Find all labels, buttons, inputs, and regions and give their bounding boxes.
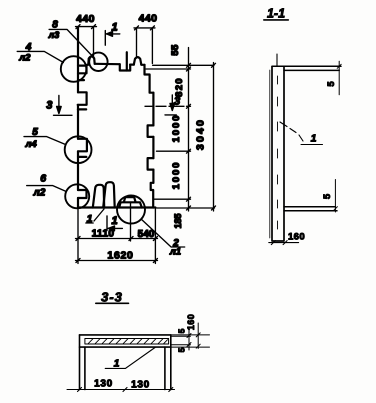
svg-text:5: 5 — [322, 193, 333, 199]
extension dash-dot at section 3-3 level — [145, 105, 191, 107]
dimension 440 left — [76, 13, 97, 57]
right edge bottom jog — [151, 183, 154, 208]
callout labels and leaders — [17, 20, 185, 258]
section marker 1 top — [105, 22, 120, 46]
top edge recess — [120, 64, 130, 70]
extension lines right — [146, 65, 215, 208]
keyway notch left #2 — [78, 139, 87, 157]
dimension line 1110/540 — [76, 238, 158, 240]
svg-text:3040: 3040 — [195, 118, 207, 150]
svg-text:л2: л2 — [18, 52, 31, 63]
svg-text:820: 820 — [174, 77, 185, 97]
keyway notch right #1 — [148, 125, 154, 136]
inner thin plate — [85, 339, 169, 345]
callout circle 8 — [89, 53, 107, 71]
svg-text:55: 55 — [170, 44, 181, 56]
svg-text:6: 6 — [40, 173, 46, 185]
dimensions plan top — [76, 13, 158, 64]
chain dimension line — [188, 48, 190, 212]
svg-text:1110: 1110 — [92, 229, 115, 240]
section marker 1 bottom — [107, 215, 122, 231]
dimension 130/130 — [67, 379, 175, 392]
top flange — [272, 66, 341, 70]
wire: right edge lower segment — [152, 170, 154, 183]
tick above wall — [276, 54, 278, 67]
flange dim 5 top — [326, 61, 341, 95]
svg-text:160: 160 — [288, 232, 305, 243]
plate outline — [80, 335, 171, 347]
svg-text:160: 160 — [186, 314, 196, 331]
callout circle 4 — [61, 56, 87, 82]
left wall — [80, 335, 85, 390]
callout circle L1 — [117, 196, 145, 224]
svg-text:5: 5 — [177, 347, 187, 352]
panel outline (plan view) — [78, 27, 156, 208]
keyway notch right #2 — [148, 158, 154, 170]
rebar label 1 (plan) — [86, 209, 104, 225]
svg-text:л2: л2 — [33, 188, 46, 199]
wire: left edge lower segment — [77, 151, 79, 190]
svg-text:540: 540 — [138, 229, 155, 240]
wire: left edge bottom segment — [77, 198, 79, 208]
wire: right edge middle segment — [152, 137, 154, 158]
svg-text:440: 440 — [76, 13, 95, 25]
bottom edge — [78, 206, 155, 208]
svg-text:185: 185 — [173, 213, 183, 228]
callout circle 6 — [65, 184, 89, 208]
dimension 160 (section 1-1) — [269, 232, 305, 245]
label 6/L2 — [27, 173, 66, 199]
extension lines right (3-3) — [171, 335, 210, 347]
section markers — [46, 22, 180, 231]
dome bump on top edge — [134, 57, 142, 65]
keyway notch left #1 — [78, 92, 87, 109]
svg-text:5: 5 — [177, 328, 187, 333]
dome bump bottom #2 — [103, 182, 115, 207]
top edge corner rectangle detail — [78, 66, 87, 81]
wire: left edge top segment — [77, 27, 79, 92]
label 4/L2 — [17, 42, 63, 64]
dim 160 (3-3) — [186, 314, 200, 349]
svg-text:1: 1 — [114, 358, 120, 370]
callout circle 5 — [65, 136, 92, 163]
wall inner thin line — [269, 70, 271, 238]
svg-text:1000: 1000 — [171, 114, 182, 143]
section marker 3 left — [46, 96, 72, 116]
label 8/L3 — [48, 20, 94, 57]
dimension 440 right — [134, 13, 157, 64]
svg-text:л1: л1 — [169, 247, 181, 258]
section marker 3 right — [165, 95, 180, 115]
section 3-3 — [67, 290, 210, 392]
right wall — [165, 335, 171, 390]
flange dim 5 bottom — [322, 180, 337, 213]
svg-text:3-3: 3-3 — [101, 290, 123, 305]
svg-text:130: 130 — [131, 380, 150, 391]
top-right corner steps — [145, 65, 154, 93]
svg-text:л4: л4 — [24, 139, 37, 150]
dome bump bottom #1 — [93, 185, 104, 208]
leader 1 (dashed) — [280, 122, 323, 145]
svg-text:130: 130 — [94, 379, 113, 390]
wall center dashes — [277, 76, 279, 229]
dim 5 top (3-3) — [177, 328, 192, 352]
extension lines bottom — [78, 203, 155, 264]
leader 1 (3-3) — [105, 348, 155, 370]
bottom edge bump detail (circled) — [119, 197, 142, 207]
arc bump on top edge (detail 8) — [88, 56, 94, 64]
svg-text:440: 440 — [139, 13, 158, 25]
top edge segment — [95, 63, 120, 66]
wall vertical lines — [272, 67, 284, 242]
top edge right segment — [141, 64, 144, 66]
keyway notch left #3 — [78, 190, 87, 198]
svg-text:5: 5 — [326, 81, 337, 87]
svg-text:1620: 1620 — [107, 250, 133, 262]
label 5/L4 — [24, 127, 66, 150]
svg-text:1: 1 — [111, 215, 117, 227]
callout circles — [61, 53, 145, 224]
top edge segment left — [87, 64, 89, 67]
svg-text:л3: л3 — [48, 30, 60, 40]
svg-text:1-1: 1-1 — [267, 7, 285, 21]
label 2/L1 — [141, 219, 185, 258]
dimensions plan bottom — [76, 203, 158, 264]
chain ticks — [187, 63, 191, 210]
dimension line 1620 — [76, 260, 158, 262]
lifting loop stroke — [126, 52, 128, 70]
dimension 3040 — [195, 63, 216, 212]
svg-text:1000: 1000 — [171, 161, 182, 190]
section 1-1 — [264, 7, 341, 245]
bottom flange — [284, 207, 337, 211]
wire: right edge upper segment — [152, 93, 154, 126]
svg-text:3: 3 — [46, 100, 52, 112]
wire: left edge middle segment — [77, 105, 79, 139]
top edge segment before dome — [130, 63, 134, 65]
dimensions right chain — [145, 44, 216, 229]
svg-text:1: 1 — [311, 133, 317, 145]
